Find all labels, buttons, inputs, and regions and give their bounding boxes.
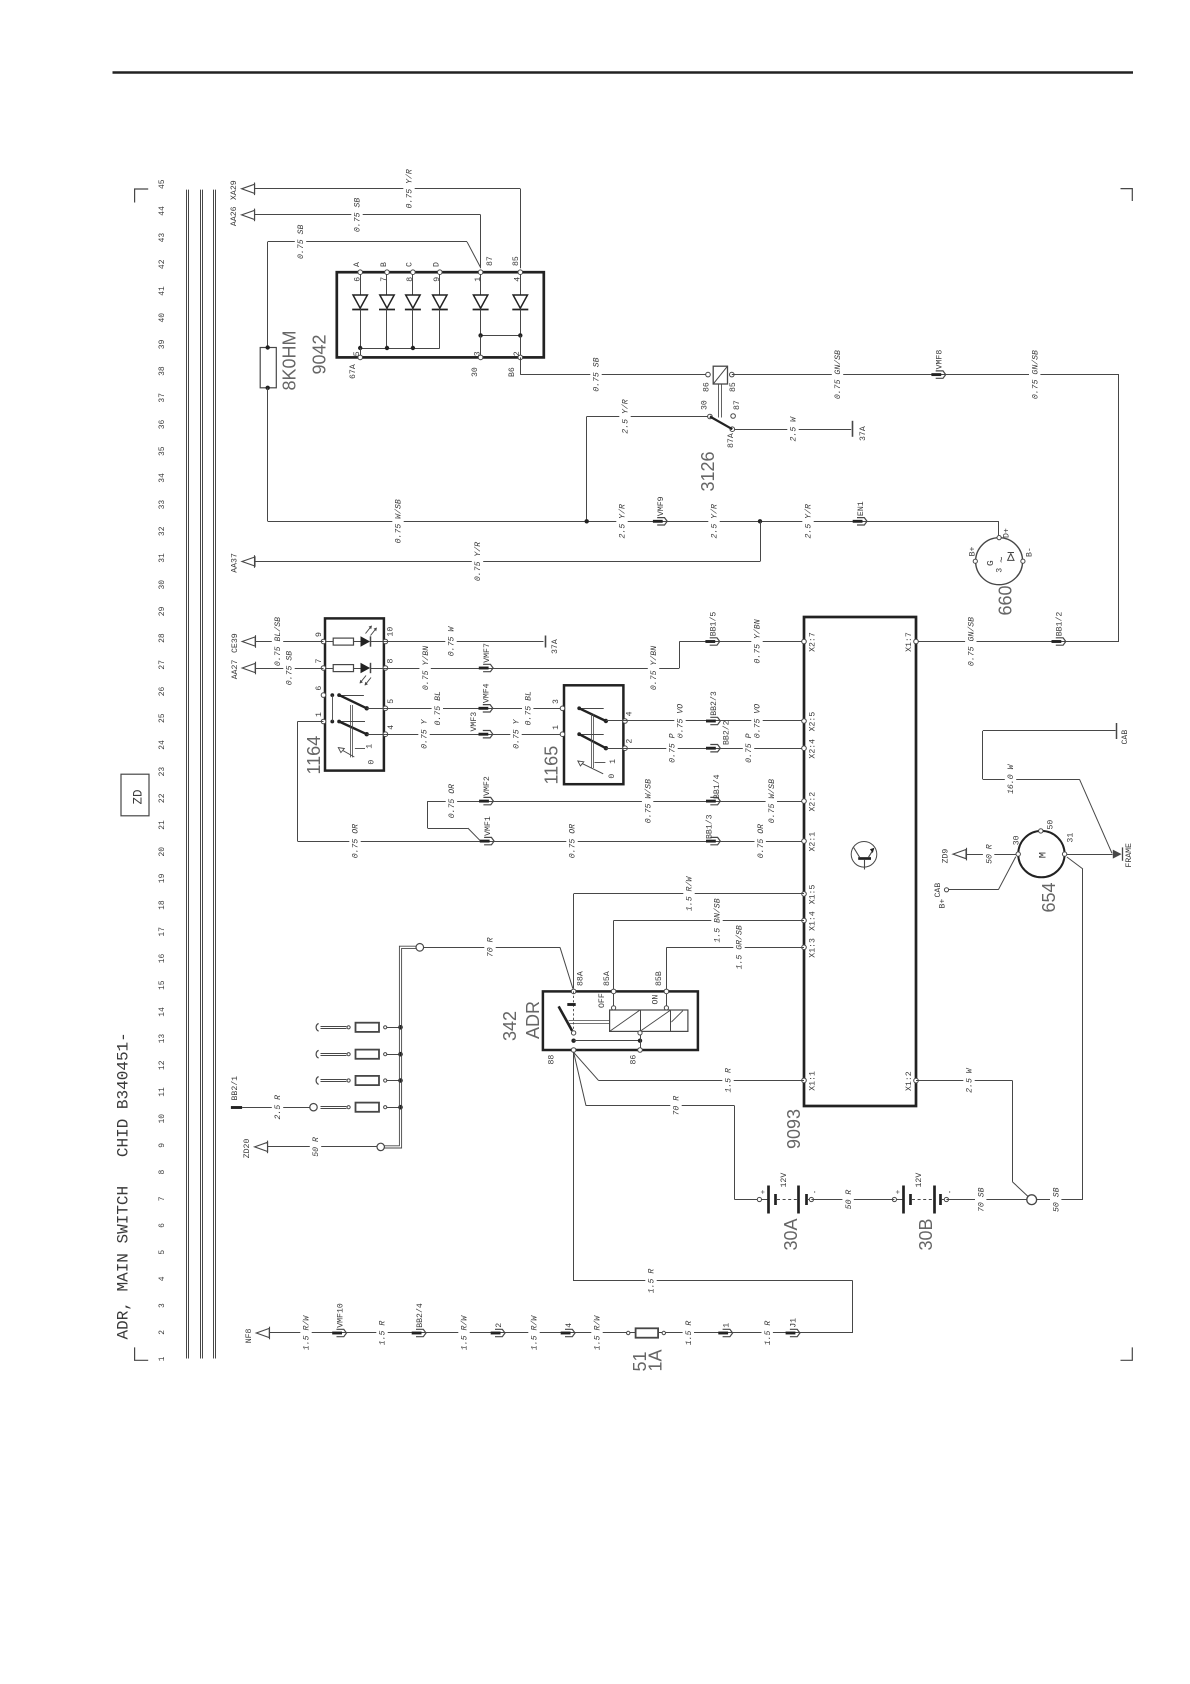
svg-text:12: 12 — [158, 1060, 167, 1070]
svg-text:VMF3: VMF3 — [470, 712, 479, 732]
9093 pin X1:4 — [802, 918, 807, 923]
connector VMF7 — [479, 667, 489, 670]
wire AA26 row 44 — [255, 214, 481, 216]
svg-text:-: - — [947, 1190, 955, 1195]
svg-text:8: 8 — [158, 1170, 167, 1175]
svg-text:3: 3 — [552, 699, 561, 704]
label 0.75 SB row43 — [295, 223, 306, 260]
wire AA37 row 31 — [255, 561, 760, 563]
svg-text:30: 30 — [700, 400, 709, 410]
svg-text:B+: B+ — [939, 899, 948, 909]
9093 pin X2:7 — [802, 639, 807, 644]
fuse bus double line — [384, 946, 416, 1146]
svg-text:9: 9 — [433, 277, 442, 282]
svg-text:3: 3 — [996, 568, 1005, 573]
svg-text:+: + — [895, 1189, 903, 1194]
svg-text:4: 4 — [158, 1276, 167, 1281]
svg-text:26: 26 — [158, 687, 167, 697]
1164 switch pole 1-4 — [330, 720, 334, 724]
connector BB1/3 — [706, 840, 716, 843]
svg-text:86: 86 — [703, 382, 712, 392]
1164 LED row1 — [361, 636, 371, 646]
svg-text:B-: B- — [1025, 547, 1034, 557]
svg-text:18: 18 — [158, 900, 167, 910]
svg-text:37A: 37A — [859, 426, 868, 441]
arrow AA26 — [242, 210, 255, 219]
diode block 9042 — [337, 272, 544, 357]
1165 position lever — [580, 762, 604, 774]
connector BB2/1 pigtail — [231, 1106, 242, 1109]
svg-text:36: 36 — [158, 420, 167, 430]
svg-text:2: 2 — [626, 739, 635, 744]
svg-text:0.75 Y/BN: 0.75 Y/BN — [753, 619, 763, 663]
9093 pin X2:5 — [802, 719, 807, 724]
svg-text:VMF10: VMF10 — [336, 1303, 345, 1328]
1165 pole link — [591, 714, 593, 768]
svg-text:88A: 88A — [576, 971, 585, 986]
svg-text:39: 39 — [158, 339, 167, 349]
wire 1165 pin2 to X2:4 — [625, 748, 804, 750]
svg-text:0.75 Y/BN: 0.75 Y/BN — [649, 646, 659, 690]
arrow ZD9 — [953, 850, 966, 859]
svg-text:16: 16 — [158, 954, 167, 964]
svg-text:1: 1 — [722, 1323, 731, 1328]
svg-text:13: 13 — [158, 1034, 167, 1044]
junction dot relay branch — [585, 519, 589, 523]
1164 pins left — [321, 639, 326, 644]
svg-text:C: C — [406, 262, 415, 267]
wire motor 31 to FRAME — [1067, 854, 1113, 856]
wire X1:2 branch — [916, 1080, 1013, 1082]
svg-text:CAB: CAB — [934, 883, 943, 898]
svg-text:67A: 67A — [349, 364, 358, 379]
svg-text:0.75 Y: 0.75 Y — [421, 718, 430, 749]
svg-text:M: M — [1037, 852, 1049, 858]
svg-text:FRAME: FRAME — [1125, 843, 1134, 868]
svg-text:0.75 SB: 0.75 SB — [593, 357, 602, 391]
ground 37A relay — [852, 421, 854, 437]
transistor inside 9093 — [851, 842, 877, 868]
svg-text:0.75 SB: 0.75 SB — [297, 225, 306, 259]
svg-text:1.5 R/W: 1.5 R/W — [302, 1315, 312, 1350]
terminal circle 50SB — [1027, 1195, 1037, 1205]
svg-text:87: 87 — [733, 400, 742, 410]
diode 9042-87 — [480, 272, 482, 295]
svg-text:6: 6 — [158, 1223, 167, 1228]
svg-text:2.5 W: 2.5 W — [790, 416, 799, 442]
connector BB1/5 — [705, 640, 715, 643]
svg-text:2.5 Y/R: 2.5 Y/R — [804, 504, 814, 538]
wire relay 30 branch — [587, 416, 708, 418]
svg-text:B: B — [380, 262, 389, 267]
svg-text:4: 4 — [514, 277, 523, 282]
svg-text:J1: J1 — [790, 1318, 799, 1328]
wire between batteries — [811, 1199, 894, 1201]
diode 9042-C — [412, 272, 414, 295]
connector VMF10 — [332, 1332, 342, 1335]
connector VMF4 — [479, 707, 489, 710]
svg-text:20: 20 — [158, 847, 167, 857]
svg-text:VMF8: VMF8 — [936, 350, 945, 370]
fuse link row 3 — [316, 1077, 318, 1085]
wire 50 SB to motor 31 — [1037, 1199, 1083, 1201]
wire 1164 pin8 to X2:7 — [385, 668, 679, 670]
wire 1164 pin1 branch — [298, 721, 324, 723]
svg-text:660: 660 — [996, 585, 1016, 615]
svg-text:41: 41 — [158, 286, 167, 296]
svg-text:30: 30 — [158, 580, 167, 590]
connector BB2/2 — [706, 747, 716, 750]
svg-text:ZD9: ZD9 — [942, 849, 951, 864]
svg-text:VMF7: VMF7 — [483, 643, 492, 663]
9042 bottom pins — [358, 355, 363, 360]
svg-text:29: 29 — [158, 606, 167, 616]
svg-text:2.5 W: 2.5 W — [966, 1067, 975, 1093]
svg-text:2: 2 — [495, 1323, 504, 1328]
1164 lamp resistor row1 — [325, 641, 333, 643]
wire 9042 pin2 to relay 86 — [520, 357, 522, 374]
svg-text:2.5 Y/R: 2.5 Y/R — [618, 504, 628, 538]
svg-text:0.75 BL: 0.75 BL — [434, 691, 443, 725]
arrow AA37 — [242, 557, 255, 566]
svg-text:+: + — [760, 1189, 768, 1194]
ground FRAME — [1113, 850, 1122, 859]
svg-text:9: 9 — [158, 1143, 167, 1148]
label 0.75 SB row44 — [351, 196, 362, 233]
svg-text:0.75 Y: 0.75 Y — [513, 718, 522, 749]
svg-text:3: 3 — [158, 1303, 167, 1308]
battery 30A — [757, 1197, 761, 1201]
svg-text:4: 4 — [626, 711, 635, 716]
terminal circle fuse row4 — [310, 1104, 317, 1111]
switch unit 1165 — [564, 685, 623, 784]
svg-text:1.5 GR/SB: 1.5 GR/SB — [735, 925, 745, 969]
svg-text:7: 7 — [315, 659, 324, 664]
corner mark top-right — [1121, 189, 1133, 201]
svg-text:BB1/5: BB1/5 — [709, 612, 719, 637]
svg-text:3: 3 — [474, 351, 483, 356]
wire bottom chain row2 — [269, 1332, 853, 1334]
svg-text:~: ~ — [997, 556, 1009, 563]
svg-text:40: 40 — [158, 313, 167, 323]
svg-text:86: 86 — [630, 1055, 639, 1065]
svg-text:33: 33 — [158, 500, 167, 510]
svg-text:70 R: 70 R — [487, 937, 496, 957]
svg-text:OFF: OFF — [598, 993, 607, 1008]
svg-text:0.75 OR: 0.75 OR — [352, 824, 361, 858]
svg-text:1.5 R/W: 1.5 R/W — [685, 876, 695, 911]
svg-text:9093: 9093 — [784, 1109, 804, 1149]
svg-text:0.75 SB: 0.75 SB — [354, 198, 363, 232]
connector BB1/2 — [1052, 640, 1062, 643]
wire X1:5 row — [573, 894, 575, 989]
diode 9042-A — [360, 272, 362, 295]
svg-text:21: 21 — [158, 820, 167, 830]
wire ZD20 to bus — [268, 1146, 377, 1148]
svg-text:70 SB: 70 SB — [977, 1187, 986, 1212]
svg-text:AA26: AA26 — [230, 206, 239, 226]
svg-text:22: 22 — [158, 793, 167, 803]
wire AA27 row 27 — [256, 668, 324, 670]
svg-text:BB2/2: BB2/2 — [721, 720, 731, 745]
342 linkage — [569, 1020, 610, 1022]
svg-text:1: 1 — [158, 1356, 167, 1361]
svg-text:X1:4: X1:4 — [809, 911, 818, 931]
svg-text:7: 7 — [158, 1196, 167, 1201]
svg-text:17: 17 — [158, 927, 167, 937]
svg-text:35: 35 — [158, 446, 167, 456]
svg-text:0.75 W/SB: 0.75 W/SB — [643, 779, 653, 823]
342 switch contact — [573, 991, 575, 1030]
svg-text:1: 1 — [315, 712, 324, 717]
connector EN1 — [853, 520, 863, 523]
svg-text:X1:5: X1:5 — [809, 885, 818, 905]
wire down right margin — [1118, 375, 1120, 642]
svg-text:342: 342 — [500, 1011, 520, 1041]
wire VMF2 row to X2:2 — [428, 801, 804, 803]
svg-text:X2:7: X2:7 — [809, 632, 818, 652]
svg-text:EN1: EN1 — [857, 501, 866, 516]
svg-text:1: 1 — [365, 744, 374, 749]
connector 4 — [561, 1332, 571, 1335]
svg-text:23: 23 — [158, 767, 167, 777]
wire power row 0.75 W/SB — [268, 521, 999, 523]
connector BB2/4 — [412, 1332, 422, 1335]
342 solenoid — [610, 1010, 688, 1031]
fuse link row 2 — [316, 1050, 318, 1058]
label 0.75 Y/R row45 — [403, 168, 414, 210]
svg-text:NF8: NF8 — [245, 1328, 254, 1343]
svg-text:27: 27 — [158, 660, 167, 670]
wire ZD9 to motor 30 — [966, 854, 1016, 856]
arrow ZD20 — [255, 1142, 268, 1151]
svg-text:16.0 W: 16.0 W — [1007, 763, 1016, 794]
9093 pin X1:2 — [914, 1078, 919, 1083]
svg-text:BB2/3: BB2/3 — [709, 691, 719, 716]
wire to alternator D+ — [998, 521, 1000, 535]
svg-text:25: 25 — [158, 713, 167, 723]
svg-text:1.5 R/W: 1.5 R/W — [460, 1315, 470, 1350]
wire 1165 pin4 to X2:5 — [625, 720, 804, 722]
svg-text:BB1/4: BB1/4 — [712, 774, 722, 799]
svg-text:ZD: ZD — [132, 789, 146, 804]
svg-text:0.75 P: 0.75 P — [745, 733, 754, 763]
svg-text:ZD20: ZD20 — [243, 1139, 252, 1159]
svg-text:ADR: ADR — [523, 1001, 543, 1039]
fuse link row 1 — [316, 1023, 318, 1031]
svg-text:7: 7 — [380, 277, 389, 282]
svg-text:-: - — [812, 1190, 820, 1195]
starter motor 654 — [1018, 831, 1064, 877]
svg-text:B+: B+ — [969, 546, 978, 556]
1164 pins right — [383, 639, 388, 644]
svg-text:30A: 30A — [781, 1218, 801, 1250]
connector 2 — [491, 1332, 501, 1335]
connector J1 — [786, 1332, 796, 1335]
wire VMF2 branch to VMF1 — [427, 801, 429, 828]
svg-text:34: 34 — [158, 473, 167, 483]
svg-text:D: D — [433, 262, 442, 267]
svg-text:D+: D+ — [1003, 528, 1012, 538]
wire X1:7 to BB1/2 row — [916, 641, 1119, 643]
svg-text:1.5 R: 1.5 R — [648, 1269, 657, 1294]
svg-text:X1:3: X1:3 — [809, 938, 818, 958]
1164 LED row2 — [361, 663, 371, 673]
1165 pins — [560, 706, 565, 711]
svg-text:2: 2 — [513, 351, 522, 356]
342 pins top — [571, 989, 576, 994]
342 pins bottom — [571, 1048, 576, 1053]
svg-text:12V: 12V — [915, 1173, 924, 1188]
svg-text:9: 9 — [315, 632, 324, 637]
svg-text:44: 44 — [158, 206, 167, 216]
svg-text:50 R: 50 R — [845, 1190, 854, 1210]
svg-text:1.5 R: 1.5 R — [764, 1321, 773, 1346]
svg-text:B6: B6 — [508, 367, 517, 377]
connector BB2/3 — [706, 720, 716, 723]
svg-text:0.75 VO: 0.75 VO — [677, 704, 686, 738]
svg-text:1.5 R: 1.5 R — [725, 1068, 734, 1093]
svg-text:1.5 BN/SB: 1.5 BN/SB — [713, 898, 723, 942]
svg-text:1.5 R/W: 1.5 R/W — [593, 1315, 603, 1350]
svg-text:0.75 OR: 0.75 OR — [569, 824, 578, 858]
svg-text:VMF2: VMF2 — [483, 776, 492, 796]
svg-text:70 R: 70 R — [673, 1096, 682, 1116]
svg-text:85A: 85A — [603, 971, 612, 986]
svg-text:45: 45 — [158, 179, 167, 189]
svg-text:30: 30 — [471, 367, 480, 377]
svg-text:2.5 Y/R: 2.5 Y/R — [710, 504, 720, 538]
svg-text:50 SB: 50 SB — [1052, 1187, 1061, 1212]
svg-text:VMF9: VMF9 — [657, 496, 666, 516]
9042 internal bus 87-85 — [480, 309, 482, 335]
svg-text:X2:1: X2:1 — [809, 832, 818, 852]
wire 30B minus to terminal — [946, 1199, 1027, 1201]
svg-text:VMF4: VMF4 — [483, 683, 492, 703]
junction dot AA37 branch — [758, 519, 762, 523]
9093 pin X2:2 — [802, 799, 807, 804]
svg-text:XA29: XA29 — [230, 180, 239, 200]
svg-text:30B: 30B — [916, 1218, 936, 1250]
svg-text:BB2/1: BB2/1 — [230, 1076, 240, 1101]
svg-text:BB1/2: BB1/2 — [1055, 612, 1065, 637]
relay 3126 contacts — [708, 414, 713, 419]
svg-text:BB2/4: BB2/4 — [415, 1303, 425, 1328]
arrow XA29 — [242, 184, 255, 193]
connector BB1/4 — [706, 800, 716, 803]
wire OR row to X2:1 — [298, 841, 805, 843]
fuse link row 4 — [321, 1106, 347, 1108]
svg-text:2.5 R: 2.5 R — [274, 1095, 283, 1120]
svg-text:AA27: AA27 — [231, 660, 240, 680]
alternator 660 — [976, 538, 1023, 585]
wire 1164 pin5 to 1165 pin3 — [385, 708, 562, 710]
svg-text:9042: 9042 — [310, 334, 330, 374]
svg-text:X1:2: X1:2 — [905, 1071, 914, 1091]
svg-text:0.75 W/SB: 0.75 W/SB — [394, 499, 404, 543]
relay 3126 linkage — [718, 384, 720, 418]
fuse 51 1A — [627, 1331, 630, 1334]
wire 70R from terminal to 88A — [416, 944, 424, 952]
wire X1:3 row to 85B — [667, 947, 804, 949]
9093 pin X2:4 — [802, 746, 807, 751]
svg-text:0.75 BL: 0.75 BL — [524, 691, 533, 725]
label 0.75 GN/SB right — [1029, 349, 1040, 401]
connector VMF2 — [479, 800, 489, 803]
9093 pin X1:3 — [802, 945, 807, 950]
svg-text:31: 31 — [1067, 833, 1076, 843]
svg-text:85B: 85B — [655, 971, 664, 986]
9093 pin X1:5 — [802, 892, 807, 897]
1164 switch pole 6-5 — [330, 693, 334, 697]
svg-text:2.5 Y/R: 2.5 Y/R — [621, 399, 631, 433]
svg-text:6: 6 — [353, 277, 362, 282]
9093 pin X1:1 — [802, 1078, 807, 1083]
svg-text:1.5 R: 1.5 R — [379, 1321, 388, 1346]
svg-text:0.75 Y/R: 0.75 Y/R — [405, 169, 415, 208]
1164 position lever — [340, 749, 354, 757]
svg-text:10: 10 — [158, 1114, 167, 1124]
bus bars (3 double rails) — [186, 190, 188, 1359]
svg-text:85: 85 — [512, 256, 521, 266]
svg-text:3126: 3126 — [698, 451, 718, 491]
wire 342-88 to battery 70R — [574, 1052, 586, 1105]
svg-text:0: 0 — [608, 774, 617, 779]
svg-text:0.75 W: 0.75 W — [448, 626, 457, 657]
svg-text:42: 42 — [158, 259, 167, 269]
9042 internal bus A-D — [360, 309, 362, 348]
svg-text:1.5 R: 1.5 R — [685, 1321, 694, 1346]
wire XA29 row 45 — [255, 188, 520, 190]
svg-text:0.75 OR: 0.75 OR — [757, 824, 766, 858]
svg-text:38: 38 — [158, 366, 167, 376]
svg-text:0.75 BL/SB: 0.75 BL/SB — [273, 617, 283, 666]
svg-text:654: 654 — [1039, 882, 1059, 912]
corner mark top-left — [135, 189, 149, 203]
svg-text:0.75 P: 0.75 P — [669, 733, 678, 763]
svg-text:5: 5 — [353, 351, 362, 356]
ZD box — [121, 774, 149, 816]
wire relay 85 to VMF8 — [732, 374, 1119, 376]
page header rule — [113, 71, 1134, 74]
wire motor30 to CAB B+ terminal — [998, 857, 1016, 890]
svg-text:87A: 87A — [727, 433, 736, 448]
relay 3126 coil — [713, 366, 727, 384]
svg-text:37A: 37A — [551, 639, 560, 654]
svg-text:30: 30 — [1013, 835, 1022, 845]
1165 switch pole 1-2 — [577, 732, 581, 736]
svg-text:ON: ON — [651, 995, 660, 1005]
svg-text:10: 10 — [387, 627, 396, 637]
svg-text:15: 15 — [158, 980, 167, 990]
terminal circle bus bottom — [377, 1143, 384, 1150]
ground CAB — [1116, 723, 1118, 739]
diode 9042-D — [439, 272, 441, 295]
svg-text:50 R: 50 R — [985, 844, 994, 864]
control unit 9093 — [804, 617, 916, 1106]
svg-text:X2:5: X2:5 — [809, 712, 818, 732]
wire 342-88 down to fuse row — [573, 1052, 575, 1281]
wire CE39 row 28 — [256, 641, 324, 643]
svg-text:A: A — [353, 262, 362, 267]
svg-text:G: G — [985, 560, 996, 566]
battery 30B — [892, 1197, 896, 1201]
svg-text:CAB: CAB — [1121, 730, 1130, 745]
svg-text:88: 88 — [547, 1055, 556, 1065]
svg-text:85: 85 — [729, 382, 738, 392]
svg-text:50 R: 50 R — [312, 1137, 321, 1157]
svg-text:1.5 R/W: 1.5 R/W — [530, 1315, 540, 1350]
